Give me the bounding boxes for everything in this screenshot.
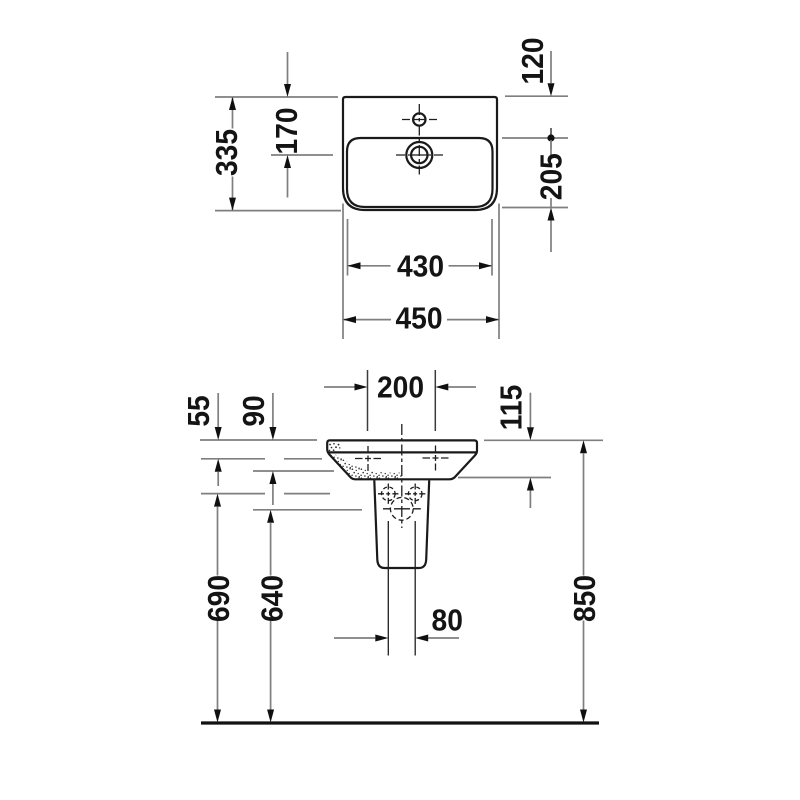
svg-text:450: 450: [395, 301, 442, 336]
dimension 430 arrow right: [479, 262, 492, 269]
basin rim line (front view): [328, 451, 477, 453]
ceramic section stipple corner patch: [329, 443, 341, 451]
dimension 205 tail bottom: [550, 221, 552, 253]
dimension 430 arrow left: [348, 262, 361, 269]
drain outlet dashed circle: [390, 497, 413, 520]
dimension 850 line: [583, 453, 585, 709]
dimension 430 line: [348, 265, 493, 267]
left tap fixing cross: [355, 458, 381, 460]
dimension 205 arrow up (outside): [548, 208, 555, 221]
extension line 450 right: [498, 204, 500, 340]
extension line basin top (left): [200, 439, 317, 441]
extension line drain outlet level: [253, 509, 362, 511]
basin outer outline (top view): [343, 97, 497, 210]
ceramic section stipple band: [329, 453, 403, 479]
extension line 450 left: [342, 204, 344, 340]
dimension 170 arrow down: [284, 84, 291, 97]
svg-text:115: 115: [494, 385, 529, 430]
dimension 115 tail top: [529, 393, 531, 428]
vertical centreline front view: [401, 424, 403, 528]
faucet/drain vertical centreline: [418, 104, 420, 175]
dimension 640 arrow down: [267, 710, 274, 723]
extension line inner rim top (right): [502, 137, 568, 139]
extension line 90 level: [253, 470, 334, 472]
dimension 640 arrow up: [267, 510, 274, 523]
dimension 80 arrow right-pointing: [375, 635, 388, 642]
dimension 115 arrow down: [527, 427, 534, 440]
extension line drain centre (left): [271, 154, 333, 156]
dimension 170 arrow up: [284, 155, 291, 168]
basin outline (front view): [327, 440, 477, 479]
dimension 90 tail bottom: [272, 484, 274, 505]
extension line rim lip level (left): [201, 458, 322, 460]
dimension 335 line: [232, 97, 234, 211]
dimension 170 tail top: [287, 52, 289, 84]
dimension 80 arrow left-pointing: [415, 635, 428, 642]
extension line 430 left: [347, 219, 349, 276]
dimension 55 tail bottom: [217, 472, 219, 486]
extension line basin bottom (right): [458, 477, 551, 479]
dimension 90 arrow up (outside): [269, 471, 276, 484]
dimension 450 arrow left: [343, 316, 356, 323]
dimension 200 line right: [448, 386, 476, 388]
dimension 80 line left: [334, 637, 375, 639]
dimension 640 line: [270, 523, 272, 710]
drain outer circle: [406, 142, 432, 168]
dimension 690 arrow up: [214, 494, 221, 507]
basin inner bowl outline (top view): [347, 138, 493, 207]
dimension 90 tail top: [272, 393, 274, 427]
pedestal hole right circle: [408, 487, 422, 501]
pedestal outline: [374, 480, 429, 568]
extension line 200 left: [367, 370, 369, 431]
svg-text:90: 90: [237, 395, 272, 426]
dimension 55 arrow up (outside): [215, 459, 222, 472]
dimension 200 arrow right-pointing: [355, 384, 368, 391]
svg-text:430: 430: [397, 249, 444, 284]
dimension 205 line: [550, 140, 552, 208]
svg-text:205: 205: [534, 153, 569, 200]
dimension 55 arrow down: [215, 427, 222, 440]
drain inner circle: [411, 147, 427, 163]
drain horizontal crosshair: [396, 154, 443, 156]
svg-text:55: 55: [182, 395, 217, 426]
faucet hole circle: [413, 113, 425, 125]
dimension 115 tail bottom: [529, 491, 531, 509]
svg-text:850: 850: [568, 575, 603, 622]
drain outlet horizontal crosshair: [383, 508, 421, 510]
svg-text:690: 690: [202, 575, 237, 622]
extension line pedestal holes level: [201, 493, 330, 495]
svg-text:640: 640: [255, 575, 290, 622]
dimension 115 arrow up (outside): [527, 478, 534, 491]
dimension 690 arrow down: [214, 710, 221, 723]
dimension 90 arrow down: [269, 427, 276, 440]
svg-text:170: 170: [270, 107, 305, 154]
dimension 450 arrow right: [486, 316, 499, 323]
svg-text:200: 200: [377, 370, 424, 405]
dimension 80 line right: [428, 637, 459, 639]
dimension 690 line: [217, 507, 219, 710]
dimension 200 line left: [324, 386, 355, 388]
faucet hole horizontal crosshair: [402, 119, 437, 121]
extension line 430 right: [491, 219, 493, 276]
shared endpoint dot 120/205: [550, 128, 552, 149]
dimension 450 line: [343, 319, 499, 321]
dimension 170 tail bottom: [287, 168, 289, 198]
pedestal hole left circle: [382, 487, 396, 501]
svg-text:120: 120: [516, 37, 551, 84]
dimension 200 arrow left-pointing: [435, 384, 448, 391]
right tap fixing cross: [423, 457, 449, 459]
svg-text:335: 335: [210, 129, 245, 176]
extension line top edge (left): [215, 96, 338, 98]
dimension 120 arrow down: [548, 83, 555, 96]
dimension 55 tail top: [217, 393, 219, 427]
dimension 335 arrow up: [229, 97, 236, 110]
drain pipe left line: [387, 521, 389, 656]
extension line 200 right: [434, 370, 436, 431]
extension line bottom edge (left): [215, 210, 341, 212]
extension line bottom edge (right): [502, 207, 568, 209]
floor line: [201, 721, 599, 724]
drain pipe right line: [414, 521, 416, 656]
svg-text:80: 80: [432, 603, 463, 638]
dimension 850 arrow down: [580, 710, 587, 723]
dimension 120 tail: [550, 51, 552, 83]
extension line top edge (right): [505, 95, 568, 97]
extension line basin top (right): [484, 439, 603, 441]
dimension 335 arrow down: [229, 198, 236, 211]
dimension 850 arrow up: [580, 440, 587, 453]
